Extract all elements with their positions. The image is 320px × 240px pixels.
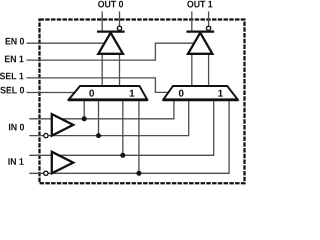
junction dot IN1b/left mux (136, 171, 141, 176)
wire SEL1 (27, 78, 169, 93)
bubble IN0 (44, 133, 48, 137)
pin label SEL 0 (0, 87, 24, 94)
wire EN1 (27, 43, 195, 60)
junction dot IN1a/left mux (120, 153, 125, 158)
chip boundary dashed box (40, 20, 245, 184)
wire left mux input 0b (98, 100, 100, 136)
wire OUT1 stub b (enable) (208, 11, 210, 25)
wire left mux input 0a (83, 100, 85, 119)
wire OUT0 stub a (101, 11, 103, 31)
mux 0 label 1 (130, 90, 135, 97)
wire IN0 rail B (IN 0 bubble rail to right mux input 0b) (29, 101, 188, 136)
wire IN0 rail A (IN 0 pin to right mux input 0a) (29, 101, 174, 119)
wire left mux input 1a (122, 100, 124, 156)
wire channel ch1 b (buffer to mux) (208, 54, 210, 87)
mux 1 label 1 (218, 90, 223, 97)
wire OUT1 stub a (191, 11, 193, 31)
mux 0 (left trapezoid) (69, 86, 148, 100)
mux 1 bottom thick edge (163, 98, 239, 101)
mux 0 label 0 (89, 90, 94, 97)
pin label EN 1 (5, 56, 24, 63)
pin label OUT 1 (187, 1, 212, 8)
input buffer IN0 (52, 114, 73, 136)
pin label IN 0 (9, 124, 24, 131)
wire SEL0 (27, 92, 75, 94)
mux 1 label 0 (179, 90, 184, 97)
wire channel ch0 b (buffer to mux) (119, 54, 121, 87)
mux 1 (right trapezoid) (163, 86, 237, 100)
bubble OUT1 enable (206, 26, 210, 30)
input buffer IN1 (52, 152, 73, 174)
wire IN1 rail A (IN 1 pin to right mux input 1a) (29, 101, 213, 156)
tri-state buffer ch0 (98, 33, 123, 54)
bar OUT0 (97, 30, 125, 32)
bar OUT1 (186, 30, 214, 32)
pin label SEL 1 (0, 73, 24, 80)
wire OUT0 stub b (enable) (119, 11, 121, 25)
pin label OUT 0 (98, 1, 123, 8)
pin label EN 0 (6, 38, 24, 45)
wire left mux input 1b (138, 100, 140, 174)
bubble OUT0 enable (117, 26, 121, 30)
junction dot IN0a/left mux (82, 116, 87, 121)
wire EN0 (27, 42, 105, 44)
mux 0 bottom thick edge (68, 98, 148, 101)
wire channel ch0 a (buffer to mux) (101, 54, 103, 87)
pin label IN 1 (8, 158, 23, 165)
wire channel ch1 a (buffer to mux) (191, 54, 193, 87)
bubble IN1 (44, 171, 48, 175)
wire IN1 rail B (IN 1 bubble rail to right mux input 1b) (29, 101, 229, 174)
tri-state buffer ch1 (188, 33, 212, 54)
junction dot IN0b/left mux (96, 133, 101, 138)
